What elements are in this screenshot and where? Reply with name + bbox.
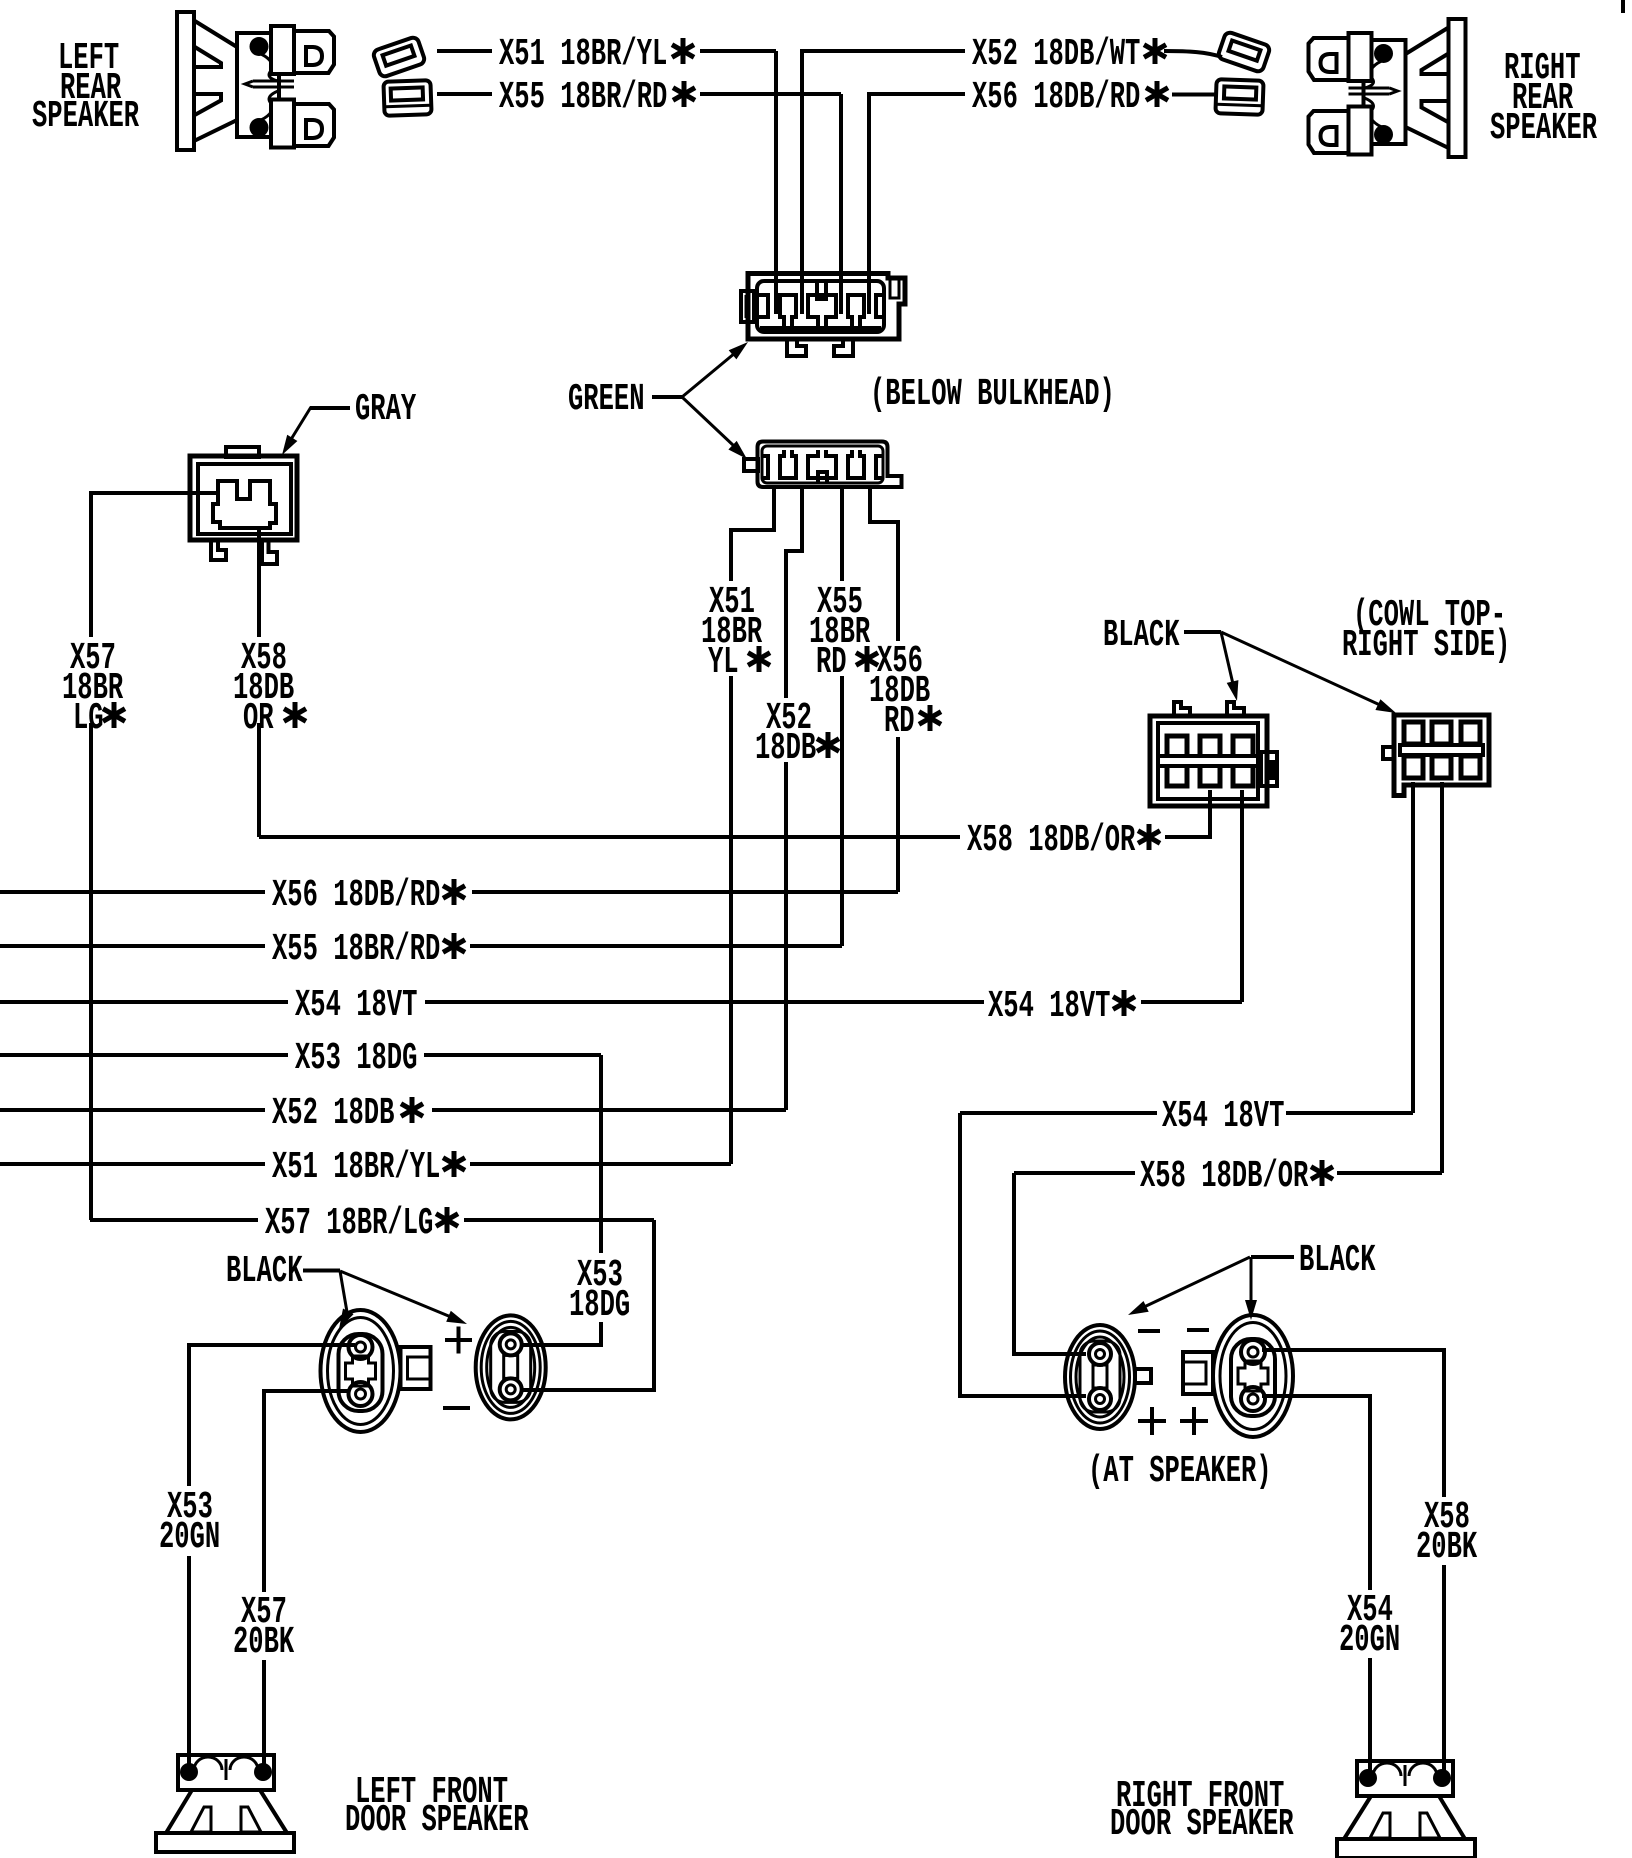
- svg-text:OR: OR: [243, 696, 274, 740]
- svg-text:BLACK: BLACK: [1103, 613, 1180, 657]
- svg-text:X56 18DB/RD: X56 18DB/RD: [272, 873, 440, 917]
- svg-text:RD: RD: [884, 699, 915, 743]
- svg-text:20GN: 20GN: [1339, 1618, 1400, 1662]
- svg-text:18DB: 18DB: [755, 726, 816, 770]
- svg-text:X56 18DB/RD: X56 18DB/RD: [972, 75, 1140, 119]
- svg-text:SPEAKER: SPEAKER: [32, 94, 139, 138]
- svg-text:X54 18VT: X54 18VT: [1162, 1094, 1284, 1138]
- svg-text:BLACK: BLACK: [226, 1249, 303, 1293]
- svg-text:SPEAKER: SPEAKER: [1490, 106, 1597, 150]
- svg-text:X58 18DB/OR: X58 18DB/OR: [1140, 1154, 1309, 1198]
- svg-text:(AT SPEAKER): (AT SPEAKER): [1088, 1449, 1272, 1493]
- svg-text:GRAY: GRAY: [355, 387, 417, 431]
- svg-text:YL: YL: [708, 640, 739, 684]
- svg-text:X54 18VT: X54 18VT: [295, 983, 417, 1027]
- svg-text:X54 18VT: X54 18VT: [988, 984, 1110, 1028]
- svg-text:RIGHT SIDE): RIGHT SIDE): [1342, 623, 1510, 667]
- svg-text:RD: RD: [816, 640, 847, 684]
- svg-text:LG: LG: [73, 696, 104, 740]
- svg-text:X52 18DB: X52 18DB: [272, 1091, 394, 1135]
- svg-text:20BK: 20BK: [1416, 1525, 1478, 1569]
- svg-text:X51 18BR/YL: X51 18BR/YL: [272, 1145, 440, 1189]
- svg-text:20BK: 20BK: [233, 1620, 295, 1664]
- svg-text:X57 18BR/LG: X57 18BR/LG: [265, 1201, 433, 1245]
- svg-text:X53 18DG: X53 18DG: [295, 1036, 417, 1080]
- svg-text:BLACK: BLACK: [1299, 1238, 1376, 1282]
- svg-text:X58 18DB/OR: X58 18DB/OR: [967, 818, 1136, 862]
- svg-text:20GN: 20GN: [159, 1515, 220, 1559]
- svg-text:X55 18BR/RD: X55 18BR/RD: [499, 75, 667, 119]
- svg-text:DOOR SPEAKER: DOOR SPEAKER: [345, 1798, 529, 1842]
- svg-text:(BELOW BULKHEAD): (BELOW BULKHEAD): [870, 372, 1115, 416]
- svg-text:X55 18BR/RD: X55 18BR/RD: [272, 927, 440, 971]
- svg-text:18DG: 18DG: [569, 1283, 630, 1327]
- svg-text:GREEN: GREEN: [568, 377, 645, 421]
- svg-text:DOOR SPEAKER: DOOR SPEAKER: [1110, 1802, 1294, 1846]
- svg-text:X51 18BR/YL: X51 18BR/YL: [499, 32, 667, 76]
- svg-text:X52 18DB/WT: X52 18DB/WT: [972, 32, 1140, 76]
